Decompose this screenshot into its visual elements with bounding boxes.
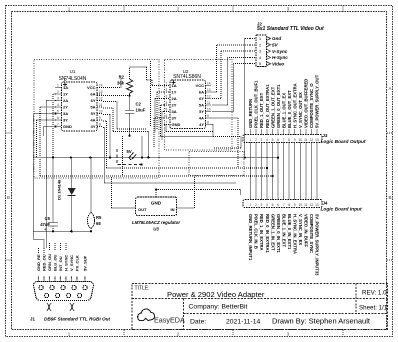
- svg-text:2: 2: [57, 90, 59, 94]
- U1 pin 13: [97, 93, 103, 95]
- wire x122.5: [122, 136, 124, 176]
- svg-text:GREEN_0_OUT_EXT1: GREEN_0_OUT_EXT1: [276, 84, 281, 128]
- connector J3 box: [243, 135, 322, 143]
- svg-text:5V_POWER_SUPPLY_INPUT33: 5V_POWER_SUPPLY_INPUT33: [315, 214, 320, 276]
- svg-text:GND: GND: [63, 124, 72, 129]
- U1 pin1 plus mark: [63, 84, 67, 86]
- svg-text:9: 9: [84, 277, 86, 281]
- svg-text:RED_0_OUT_EXTRA1: RED_0_OUT_EXTRA1: [265, 84, 270, 128]
- U2 pin1 plus mark: [172, 82, 176, 84]
- svg-text:C5: C5: [45, 216, 51, 221]
- svg-text:9: 9: [207, 114, 209, 118]
- U1 pin 12: [97, 100, 103, 102]
- svg-text:J1: J1: [30, 317, 35, 322]
- J1 hole pin 4: [72, 285, 76, 289]
- svg-text:3: 3: [261, 203, 263, 207]
- U2 pin 10: [206, 111, 212, 113]
- svg-text:4: 4: [57, 103, 59, 107]
- svg-text:4Y: 4Y: [91, 124, 96, 129]
- U2 pin 14: [206, 85, 212, 87]
- EasyEDA logo: [138, 309, 155, 320]
- svg-text:R2: R2: [119, 75, 125, 80]
- svg-text:14: 14: [207, 82, 211, 86]
- rail y231.3: [34, 230, 92, 232]
- svg-text:6Y: 6Y: [91, 98, 96, 103]
- svg-text:8: 8: [288, 138, 290, 142]
- J1 hole pin 8: [66, 293, 70, 297]
- J1 mounting tabs: [47, 303, 51, 311]
- svg-text:INT_OU: INT_OU: [58, 256, 63, 271]
- svg-text:6: 6: [57, 116, 59, 120]
- svg-text:5V_POWER_SUPPLY_OUT: 5V_POWER_SUPPLY_OUT: [315, 74, 320, 128]
- svg-text:5: 5: [166, 108, 168, 112]
- J1 hole pin 7: [55, 293, 59, 297]
- svg-text:DB9F Standard TTL RGBI Out: DB9F Standard TTL RGBI Out: [44, 317, 110, 322]
- svg-text:12: 12: [207, 95, 211, 99]
- U2 pin 1: [164, 85, 170, 87]
- svg-text:Date:: Date:: [190, 319, 206, 326]
- section box around U2: [165, 60, 233, 151]
- svg-text:U1: U1: [70, 69, 76, 74]
- svg-text:1: 1: [249, 203, 251, 207]
- wire loop left: [34, 239, 45, 241]
- svg-text:SN74LS86N: SN74LS86N: [173, 74, 201, 80]
- svg-text:D1 1N4148: D1 1N4148: [57, 179, 62, 200]
- U2 pin 7: [164, 124, 170, 126]
- svg-text:Drawn By: Stephen Arsenault: Drawn By: Stephen Arsenault: [272, 317, 371, 326]
- svg-text:6Y: 6Y: [199, 96, 204, 101]
- svg-text:OUT: OUT: [138, 207, 147, 212]
- wire rail y157.5: [34, 157, 279, 159]
- svg-text:6A: 6A: [199, 90, 204, 95]
- svg-text:11: 11: [304, 203, 308, 207]
- svg-text:U3: U3: [153, 227, 159, 232]
- svg-text:3: 3: [287, 7, 290, 12]
- svg-text:RED_1_IN_EXTRA: RED_1_IN_EXTRA: [259, 214, 264, 251]
- U1 pin 14: [97, 87, 103, 89]
- svg-text:10: 10: [298, 203, 302, 207]
- svg-text:4A: 4A: [90, 118, 95, 123]
- U1 pin 5: [56, 113, 62, 115]
- DE9 connector J1 body: [33, 282, 93, 301]
- U2 lower right wires: [212, 117, 238, 119]
- svg-text:7: 7: [71, 277, 73, 281]
- svg-text:1Y: 1Y: [63, 92, 68, 97]
- U1 pin 3: [56, 100, 62, 102]
- svg-text:B: B: [7, 195, 10, 200]
- title block outline: [132, 284, 388, 330]
- J1 short feed wires: [38, 248, 40, 253]
- U2 pin 11: [206, 104, 212, 106]
- svg-text:H-Sync: H-Sync: [272, 55, 288, 60]
- svg-text:BLU_OU: BLU_OU: [53, 254, 58, 271]
- svg-text:5V_SUP: 5V_SUP: [83, 255, 88, 271]
- wire U1 pin13 to R2 bottom: [97, 95, 130, 97]
- connector J4 box: [243, 200, 322, 208]
- svg-text:BLUE_1_OUT_EX: BLUE_1_OUT_EX: [281, 93, 286, 128]
- svg-text:GREEN_1_OUT_EXT: GREEN_1_OUT_EXT: [270, 86, 275, 128]
- svg-text:8: 8: [76, 277, 78, 281]
- svg-text:6: 6: [277, 138, 279, 142]
- svg-text:3A: 3A: [63, 111, 68, 116]
- svg-text:2: 2: [177, 332, 180, 337]
- svg-text:3: 3: [261, 138, 263, 142]
- U3 GND pin up: [155, 190, 157, 197]
- svg-text:SN74LS04N: SN74LS04N: [59, 76, 87, 82]
- svg-text:7: 7: [283, 138, 285, 142]
- svg-text:8: 8: [207, 121, 209, 125]
- svg-text:BLUE_0_OUT_EXT: BLUE_0_OUT_EXT: [287, 90, 292, 128]
- svg-text:2: 2: [255, 138, 257, 142]
- svg-text:EasyEDA: EasyEDA: [154, 316, 185, 325]
- J2 pin 5: [250, 63, 256, 65]
- J2 pin 2: [250, 44, 256, 46]
- svg-text:4: 4: [266, 138, 268, 142]
- svg-text:+: +: [44, 227, 47, 233]
- svg-text:GND: GND: [172, 122, 181, 127]
- svg-text:11: 11: [207, 101, 211, 105]
- J2 pin 1: [250, 38, 256, 40]
- svg-text:Power & 2902 Video Adapter: Power & 2902 Video Adapter: [167, 290, 265, 299]
- junction dots on rails: [70, 156, 72, 158]
- svg-text:2: 2: [255, 203, 257, 207]
- svg-text:4: 4: [166, 101, 168, 105]
- svg-text:GND_RE: GND_RE: [36, 254, 41, 271]
- IC U2: [170, 80, 206, 129]
- U2 pin 2: [164, 91, 170, 93]
- svg-text:A: A: [7, 86, 10, 91]
- svg-text:10: 10: [298, 138, 302, 142]
- svg-text:3: 3: [49, 277, 51, 281]
- svg-text:IN: IN: [171, 207, 175, 212]
- section box around U1: [34, 60, 159, 179]
- svg-text:J4: J4: [323, 201, 328, 206]
- svg-text:6: 6: [277, 203, 279, 207]
- capacitor C5 chain: [52, 158, 54, 223]
- svg-text:1A: 1A: [172, 83, 177, 88]
- U1 pin 2: [56, 93, 62, 95]
- svg-text:9: 9: [294, 138, 296, 142]
- lower right rails: [213, 136, 241, 138]
- svg-text:10: 10: [207, 108, 211, 112]
- svg-text:12: 12: [99, 97, 103, 101]
- svg-text:2: 2: [259, 43, 261, 47]
- svg-text:COMPOSITE_SYNC: COMPOSITE_SYNC: [309, 214, 314, 253]
- wires U2 left pins: [157, 91, 164, 93]
- U2 pin 3: [164, 98, 170, 100]
- J1 hole pin 5: [83, 285, 87, 289]
- svg-text:V_SYNC_OUT_EX: V_SYNC_OUT_EX: [298, 92, 303, 128]
- svg-text:13: 13: [315, 203, 319, 207]
- svg-text:RED_OU: RED_OU: [42, 254, 47, 271]
- section box right mid: [189, 152, 244, 176]
- svg-text:5: 5: [60, 277, 62, 281]
- J2 pin 4: [250, 56, 256, 58]
- svg-text:7: 7: [283, 203, 285, 207]
- svg-text:5: 5: [272, 138, 274, 142]
- svg-text:H_SYNC_IN_EXTRA: H_SYNC_IN_EXTRA: [293, 214, 298, 254]
- svg-text:REV: 1.0: REV: 1.0: [362, 290, 387, 297]
- left long verticals: [33, 114, 35, 240]
- svg-text:TITLE:: TITLE:: [135, 286, 150, 292]
- svg-text:B: B: [388, 195, 391, 200]
- U2 pin 5: [164, 111, 170, 113]
- J1 hole pin 9: [77, 293, 81, 297]
- wire rail y183: [105, 182, 237, 184]
- svg-text:H_SYNC: H_SYNC: [64, 255, 69, 271]
- capacitor C2: [126, 110, 135, 112]
- svg-text:1Y: 1Y: [172, 90, 177, 95]
- U1 pin 6: [56, 119, 62, 121]
- U3 OUT wire: [112, 207, 136, 209]
- svg-text:Logic Board Output: Logic Board Output: [321, 139, 366, 145]
- wires from U1 left pins: [53, 93, 56, 95]
- svg-text:1: 1: [259, 37, 261, 41]
- dashed net-class line: [117, 149, 142, 165]
- U1 pin 7: [56, 126, 62, 128]
- verticals mid column: [150, 61, 152, 126]
- svg-text:VIDEO_OUT_BUFFERED: VIDEO_OUT_BUFFERED: [304, 79, 309, 128]
- svg-text:13: 13: [315, 138, 319, 142]
- J1 hole pin 1: [39, 285, 43, 289]
- U1 pin 4: [56, 106, 62, 108]
- svg-text:PIXEL_CLK_IN_B: PIXEL_CLK_IN_B: [254, 214, 259, 249]
- svg-text:2A: 2A: [172, 96, 177, 101]
- U2 pin 12: [206, 98, 212, 100]
- J1 hole pin 3: [61, 285, 65, 289]
- J3 top pin labels (rotated): [249, 130, 251, 135]
- regulator U3 box: [136, 197, 177, 216]
- svg-text:4A: 4A: [199, 116, 204, 121]
- svg-text:1: 1: [166, 82, 168, 86]
- svg-text:BLUE_0_IN_EXT1: BLUE_0_IN_EXT1: [287, 214, 292, 250]
- IC U1: [62, 82, 98, 131]
- svg-text:J3: J3: [323, 133, 328, 138]
- wire rail y189.5: [201, 189, 241, 191]
- svg-text:V_SYNC_IN_EX: V_SYNC_IN_EX: [298, 214, 303, 245]
- svg-text:PIXEL_CLK_OUT_BUF1: PIXEL_CLK_OUT_BUF1: [254, 80, 259, 128]
- svg-text:13: 13: [207, 88, 211, 92]
- svg-text:2A: 2A: [63, 98, 68, 103]
- U1 pin 1: [56, 87, 62, 89]
- wires U1 right pins: [103, 87, 121, 89]
- svg-text:5V: 5V: [272, 43, 279, 48]
- svg-text:2021-11-14: 2021-11-14: [226, 319, 260, 326]
- svg-text:9: 9: [99, 116, 101, 120]
- svg-text:7: 7: [57, 123, 59, 127]
- svg-text:4: 4: [54, 277, 56, 281]
- svg-text:Company: BetterBit: Company: BetterBit: [189, 304, 248, 311]
- bundle verticals J3->J4: [249, 143, 251, 200]
- svg-text:GND_RETURN_INPUT1: GND_RETURN_INPUT1: [248, 214, 253, 261]
- svg-text:RED_0_IN_EXTRA1: RED_0_IN_EXTRA1: [265, 214, 270, 254]
- svg-text:10: 10: [99, 110, 103, 114]
- wire R2 top to U1 vcc area: [129, 67, 131, 79]
- svg-text:4: 4: [266, 203, 268, 207]
- svg-text:6: 6: [166, 114, 168, 118]
- U2 pin 9: [206, 117, 212, 119]
- svg-text:1: 1: [38, 277, 40, 281]
- U3 IN wire: [177, 207, 195, 209]
- svg-text:COMPOSITE_SYNC_O: COMPOSITE_SYNC_O: [309, 83, 314, 128]
- wire rail y176: [40, 175, 273, 177]
- svg-text:GRN_OU: GRN_OU: [47, 254, 52, 271]
- svg-text:Video: Video: [272, 61, 285, 66]
- svg-text:14: 14: [99, 84, 103, 88]
- svg-text:11: 11: [304, 138, 308, 142]
- svg-text:9: 9: [294, 203, 296, 207]
- svg-text:V-Sync: V-Sync: [272, 49, 288, 54]
- svg-text:H_SYNC_OUT_EXTRA: H_SYNC_OUT_EXTRA: [293, 83, 298, 128]
- svg-text:3Y: 3Y: [63, 118, 68, 123]
- svg-text:2: 2: [177, 7, 180, 12]
- svg-text:GREEN_1_IN_EXT: GREEN_1_IN_EXT: [270, 214, 275, 251]
- U1 vcc stub up: [64, 76, 66, 82]
- svg-text:2: 2: [43, 277, 45, 281]
- U2 pin 13: [206, 91, 212, 93]
- svg-text:5x1 Standard TTL Video Out: 5x1 Standard TTL Video Out: [257, 26, 324, 32]
- svg-text:12: 12: [310, 203, 314, 207]
- svg-text:1: 1: [57, 84, 59, 88]
- svg-text:5: 5: [259, 62, 261, 66]
- svg-text:V_SYNC: V_SYNC: [69, 255, 74, 271]
- svg-text:3A: 3A: [172, 109, 177, 114]
- svg-text:10uF: 10uF: [136, 108, 146, 113]
- svg-text:Sheet: 1/1: Sheet: 1/1: [359, 305, 388, 312]
- svg-text:4Y: 4Y: [199, 122, 204, 127]
- U2 pin 8: [206, 124, 212, 126]
- U1 pin 11: [97, 106, 103, 108]
- svg-text:C2: C2: [136, 102, 142, 107]
- svg-text:Gnd: Gnd: [272, 36, 281, 41]
- svg-text:GND: GND: [151, 201, 162, 206]
- J2 pin 3: [250, 50, 256, 52]
- svg-text:1A: 1A: [63, 85, 68, 90]
- svg-text:5A: 5A: [90, 105, 95, 110]
- svg-text:3: 3: [57, 97, 59, 101]
- svg-text:3Y: 3Y: [172, 116, 177, 121]
- svg-text:1: 1: [68, 332, 71, 337]
- diode D1: [71, 158, 73, 189]
- resistor R5: [90, 158, 92, 214]
- svg-text:5A: 5A: [199, 103, 204, 108]
- svg-text:VCC: VCC: [196, 83, 205, 88]
- U1 pin 8: [97, 126, 103, 128]
- svg-text:5: 5: [272, 203, 274, 207]
- svg-text:2: 2: [166, 88, 168, 92]
- J1 pin stubs and labels: [38, 277, 40, 282]
- U1 pin 10: [97, 113, 103, 115]
- svg-text:6: 6: [65, 277, 67, 281]
- svg-text:LM78L05ACZ regulator: LM78L05ACZ regulator: [132, 220, 180, 225]
- svg-text:BLUE_1_IN_EXT: BLUE_1_IN_EXT: [281, 214, 286, 247]
- svg-text:6A: 6A: [90, 92, 95, 97]
- wire rail y168: [120, 167, 267, 169]
- wires to J2: [245, 38, 251, 40]
- svg-text:3: 3: [287, 332, 290, 337]
- svg-text:RED_1_OUT_EXT: RED_1_OUT_EXT: [259, 92, 264, 128]
- svg-text:4: 4: [259, 56, 261, 60]
- svg-text:5: 5: [57, 110, 59, 114]
- svg-text:5Y: 5Y: [199, 109, 204, 114]
- svg-text:2Y: 2Y: [172, 103, 177, 108]
- svg-text:13: 13: [99, 90, 103, 94]
- svg-text:1: 1: [249, 138, 251, 142]
- svg-text:7: 7: [166, 121, 168, 125]
- svg-text:5Y: 5Y: [91, 111, 96, 116]
- svg-text:3: 3: [259, 50, 261, 54]
- svg-text:5V: 5V: [127, 149, 132, 154]
- J1 hole pin 6: [44, 293, 48, 297]
- U2 pin 4: [164, 104, 170, 106]
- svg-text:R5: R5: [96, 215, 102, 220]
- svg-text:8: 8: [288, 203, 290, 207]
- svg-text:68: 68: [96, 221, 101, 226]
- svg-text:PX_CLK: PX_CLK: [75, 255, 80, 271]
- svg-text:47uF: 47uF: [40, 222, 50, 227]
- U2 pin 6: [164, 117, 170, 119]
- svg-text:11: 11: [99, 103, 103, 107]
- J1 hole pin 2: [50, 285, 54, 289]
- svg-text:8: 8: [99, 123, 101, 127]
- svg-text:VIDEO_IN_BUFF: VIDEO_IN_BUFF: [304, 214, 309, 247]
- U1 pin 9: [97, 119, 103, 121]
- svg-text:2Y: 2Y: [63, 105, 68, 110]
- svg-text:1: 1: [68, 7, 71, 12]
- svg-text:VCC: VCC: [87, 85, 96, 90]
- svg-text:12: 12: [310, 138, 314, 142]
- svg-text:A: A: [388, 86, 391, 91]
- svg-text:GREEN_0_IN_EXT1: GREEN_0_IN_EXT1: [276, 214, 281, 254]
- svg-text:Logic Board Input: Logic Board Input: [321, 207, 362, 213]
- svg-text:GND_RETURN: GND_RETURN: [248, 99, 253, 128]
- svg-text:3: 3: [166, 95, 168, 99]
